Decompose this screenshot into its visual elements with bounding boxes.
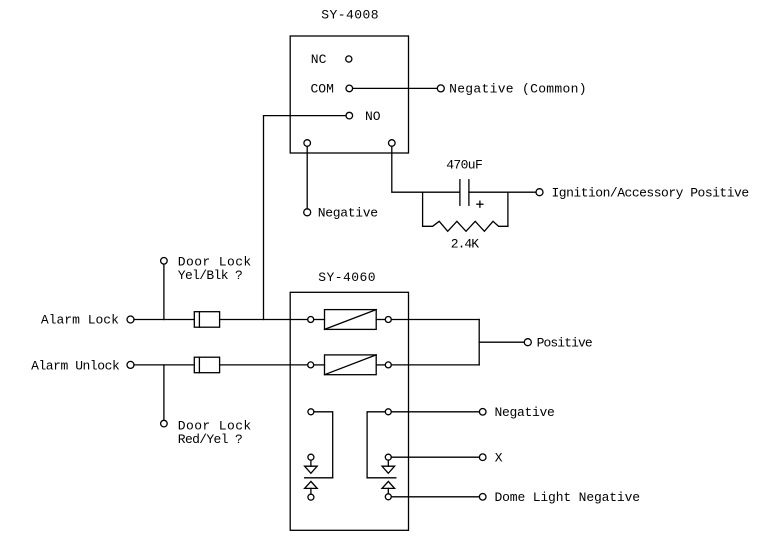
svg-text:Alarm Lock: Alarm Lock: [41, 312, 119, 327]
pin K2 right: [385, 362, 391, 368]
module U2 SY-4060 box: [290, 292, 408, 530]
wire connector right top to bar: [367, 412, 385, 478]
pin connector right middle: [385, 454, 391, 460]
node Negative (Common) terminal: [437, 85, 444, 92]
terminal COM: [346, 85, 353, 92]
pin connector left middle: [308, 454, 314, 460]
pin K2 left: [308, 362, 314, 368]
terminal NC: [346, 56, 352, 62]
node Negative terminal right: [479, 409, 486, 416]
node Dome Light Negative terminal: [479, 494, 486, 501]
node Alarm Lock terminal: [127, 316, 134, 323]
label + polarity: [477, 201, 483, 207]
node Door Lock Yel/Blk terminal: [161, 258, 168, 265]
svg-text:Negative (Common): Negative (Common): [449, 81, 587, 96]
wire K1 right pin to bracket: [391, 319, 479, 321]
wire right middle to X: [391, 456, 479, 458]
svg-text:SY-4008: SY-4008: [321, 8, 379, 23]
node Door Lock Red/Yel terminal: [161, 420, 168, 427]
pin K1 left: [308, 317, 314, 323]
wire capacitor to Ignition/Accessory Positive: [469, 191, 536, 193]
svg-text:Positive: Positive: [537, 335, 592, 350]
svg-text:Dome Light Negative: Dome Light Negative: [495, 490, 640, 505]
label Door Lock Red/Yel ?: [178, 419, 252, 447]
wire resistor left drop: [422, 192, 424, 226]
wire left middle stem: [310, 460, 312, 466]
svg-text:X: X: [495, 450, 503, 465]
terminal bottom-left of SY-4008: [304, 140, 311, 147]
wire left bottom stem: [310, 488, 312, 494]
wire bracket joining K1 and K2 outputs: [478, 320, 480, 365]
svg-text:COM: COM: [311, 81, 334, 96]
fuse F1: [194, 312, 219, 328]
wire K2 left pin to body: [314, 364, 325, 366]
wire right top to Negative: [391, 411, 479, 413]
pin K1 right: [385, 317, 391, 323]
wire K2 right pin to bracket: [391, 364, 479, 366]
connector bar right: [367, 477, 396, 479]
svg-text:Negative: Negative: [495, 405, 555, 420]
svg-text:2.4K: 2.4K: [451, 237, 479, 252]
svg-text:NO: NO: [365, 109, 381, 124]
label Door Lock Yel/Blk ?: [178, 255, 252, 283]
svg-text:SY-4060: SY-4060: [318, 270, 376, 285]
pin connector right bottom: [385, 494, 391, 500]
wire COM to Negative (Common): [353, 87, 438, 89]
wire Alarm Lock to fuse F1: [134, 319, 194, 321]
node X terminal: [479, 454, 486, 461]
arrow right up: [382, 481, 395, 488]
relay K2: [325, 355, 377, 375]
wire NO to Alarm Lock line: [264, 116, 347, 320]
wire right middle stem: [387, 460, 389, 466]
pin connector left bottom: [308, 494, 314, 500]
svg-text:Alarm Unlock: Alarm Unlock: [31, 359, 120, 374]
wire bracket to Positive: [479, 341, 524, 343]
terminal NO: [346, 112, 353, 119]
svg-text:Red/Yel ?: Red/Yel ?: [178, 432, 242, 447]
arrow right down: [382, 466, 395, 473]
wire Alarm Unlock to fuse F2: [134, 364, 194, 366]
arrow left up: [305, 481, 318, 488]
wire Door Lock Yel/Blk down to Alarm Lock line: [163, 264, 165, 319]
fuse F2: [194, 357, 219, 373]
capacitor C1 470uF: [460, 180, 469, 206]
wire bottom-right terminal to capacitor: [392, 146, 460, 192]
resistor R1 2.4K: [423, 221, 508, 231]
svg-text:Negative: Negative: [318, 206, 378, 221]
relay K1: [325, 310, 377, 330]
arrow left down: [305, 466, 318, 473]
wire K1 left pin to body: [314, 319, 325, 321]
pin connector right top: [385, 409, 391, 415]
wire resistor right drop: [507, 192, 509, 226]
node Positive terminal: [524, 339, 531, 346]
svg-text:NC: NC: [311, 52, 327, 67]
node Alarm Unlock terminal: [127, 361, 134, 368]
wire fuse F1 to relay K1: [220, 319, 308, 321]
terminal bottom-right of SY-4008: [389, 140, 396, 147]
pin connector left top: [308, 409, 314, 415]
node Negative terminal: [304, 209, 311, 216]
wire right bottom to Dome Light Negative: [391, 496, 479, 498]
wire bottom-left terminal down to Negative: [306, 146, 308, 209]
svg-text:Yel/Blk ?: Yel/Blk ?: [178, 268, 242, 283]
wire fuse F2 to relay K2: [220, 364, 308, 366]
wire K1 body to right pin: [376, 319, 385, 321]
wire right bottom stem: [387, 488, 389, 493]
wire K2 body to right pin: [376, 364, 385, 366]
wire connector left top to bar: [314, 412, 333, 478]
svg-text:Ignition/Accessory Positive: Ignition/Accessory Positive: [552, 186, 749, 201]
connector bar left: [305, 477, 333, 479]
module U1 SY-4008 relay box: [290, 36, 408, 153]
node Ignition/Accessory Positive terminal: [536, 189, 543, 196]
svg-text:470uF: 470uF: [446, 157, 482, 172]
wire Alarm Unlock down to Door Lock Red/Yel: [163, 365, 165, 420]
